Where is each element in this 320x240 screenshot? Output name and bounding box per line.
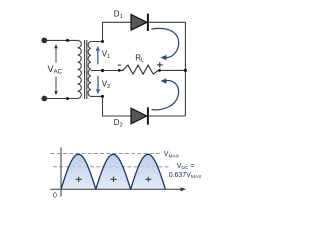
wire primary bottom bbox=[47, 98, 78, 100]
svg-text:0.637VMAX: 0.637VMAX bbox=[169, 172, 203, 180]
diode D2 bbox=[131, 107, 148, 124]
arrow V1 (blue, up) bbox=[96, 46, 100, 65]
wire resistor to rail bbox=[160, 69, 186, 71]
dashed line VDC level bbox=[53, 166, 169, 168]
label minus (load polarity) bbox=[118, 64, 121, 66]
transformer primary winding bbox=[78, 40, 82, 98]
junction dot secondary top bbox=[101, 40, 104, 43]
resistor RL zigzag bbox=[120, 65, 160, 74]
wire right rail bbox=[184, 22, 186, 116]
label plus (load polarity) bbox=[157, 62, 163, 68]
y axis bbox=[60, 148, 62, 197]
x axis arrowhead bbox=[181, 187, 187, 191]
svg-text:VMAX: VMAX bbox=[164, 151, 180, 159]
diode D1 bbox=[131, 14, 148, 31]
VAC measurement arrow bbox=[54, 44, 58, 95]
junction dot center tap bbox=[101, 69, 104, 72]
junction dot primary bottom bbox=[66, 97, 69, 100]
svg-text:D2: D2 bbox=[114, 118, 123, 128]
transformer core bbox=[84, 40, 86, 99]
terminal bottom-left (primary input) bbox=[41, 96, 47, 102]
current arrow bottom (blue, from D2 up to + terminal) bbox=[152, 78, 179, 109]
wire primary top bbox=[47, 39, 78, 41]
arrow V2 (blue, down) bbox=[96, 76, 100, 95]
svg-text:RL: RL bbox=[135, 53, 144, 63]
svg-text:VAC: VAC bbox=[48, 64, 63, 76]
wire secondary bottom lead bbox=[91, 96, 131, 116]
dashed line VMAX level bbox=[51, 153, 161, 155]
junction dot resistor right bbox=[158, 69, 161, 72]
wire center tap bbox=[91, 70, 121, 72]
plus mark hump 1 bbox=[76, 177, 82, 182]
svg-text:V1: V1 bbox=[102, 50, 110, 60]
svg-text:V2: V2 bbox=[102, 80, 110, 90]
waveform humps (full-wave rectified sine) bbox=[61, 154, 165, 189]
wire D1 output bbox=[149, 21, 186, 23]
plus mark hump 2 bbox=[110, 177, 116, 182]
svg-text:D1: D1 bbox=[114, 10, 123, 20]
current arrow top (blue, from D1 to + terminal) bbox=[152, 28, 179, 60]
x axis bbox=[50, 188, 182, 190]
junction dot rail/load bbox=[184, 69, 187, 72]
terminal top-left (primary input) bbox=[41, 38, 47, 44]
wire D2 output bbox=[149, 115, 186, 117]
junction dot secondary bottom bbox=[101, 95, 104, 98]
plus mark hump 3 bbox=[145, 177, 151, 182]
svg-text:VDC =: VDC = bbox=[177, 163, 195, 171]
svg-text:0: 0 bbox=[53, 192, 57, 199]
wire secondary top lead bbox=[91, 22, 131, 41]
junction dot primary top bbox=[66, 39, 69, 42]
junction dot resistor left bbox=[118, 69, 121, 72]
transformer secondary winding bbox=[88, 42, 91, 97]
